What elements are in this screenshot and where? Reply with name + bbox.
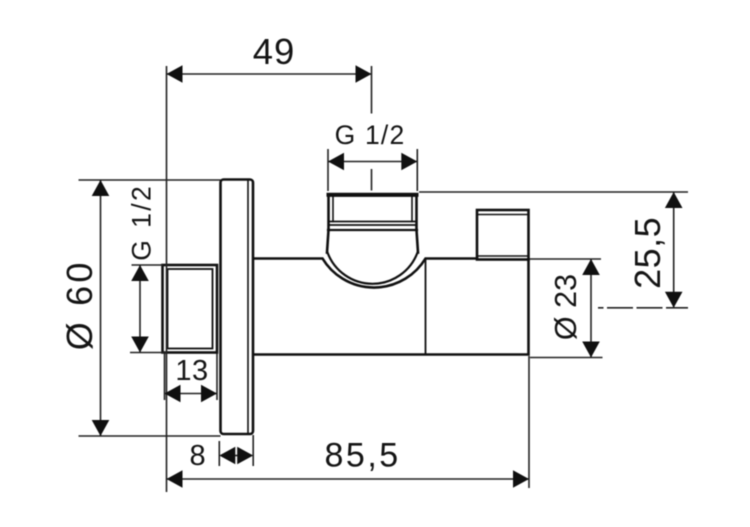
dimension G 1/2 top xyxy=(328,120,417,191)
svg-text:25,5: 25,5 xyxy=(627,217,668,289)
dimension 25,5 xyxy=(419,192,688,308)
svg-text:Ø 60: Ø 60 xyxy=(59,259,100,350)
left reference extension line (wall plane) xyxy=(166,66,168,492)
dimension G 1/2 left xyxy=(127,184,167,353)
dimension Ø 23 xyxy=(530,259,603,358)
svg-text:G 1/2: G 1/2 xyxy=(335,120,406,150)
outlet connection square Ø23 xyxy=(477,210,529,260)
wall flange plate xyxy=(221,180,254,435)
top connection fitting G 1/2 xyxy=(327,195,418,253)
dimension 13 xyxy=(165,354,218,403)
svg-text:85,5: 85,5 xyxy=(325,437,401,475)
valve body xyxy=(254,259,529,355)
dimension 8 xyxy=(190,435,254,472)
dimension 49 xyxy=(167,31,372,114)
wall connection fitting G 1/2 xyxy=(163,265,218,353)
dimension 85,5 xyxy=(167,356,530,488)
svg-text:13: 13 xyxy=(175,355,208,387)
svg-text:49: 49 xyxy=(253,31,296,72)
dimension Ø 60 xyxy=(59,180,221,436)
valve seat saddle inner curve xyxy=(328,253,418,284)
svg-text:G 1/2: G 1/2 xyxy=(127,184,157,261)
svg-text:Ø 23: Ø 23 xyxy=(549,274,583,340)
svg-text:8: 8 xyxy=(190,440,206,472)
